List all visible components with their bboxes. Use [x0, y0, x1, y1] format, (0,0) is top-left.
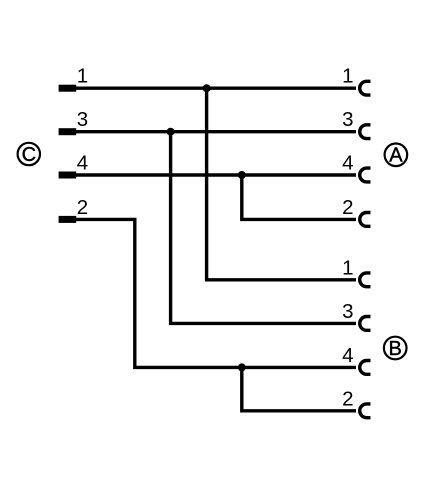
- junction dot J3 on wire C4: [238, 171, 246, 179]
- wire branch node C4 down to A2: [242, 175, 356, 219]
- wire C1 to A1: [76, 86, 356, 89]
- connector C pin 1 (male contact): [59, 85, 77, 92]
- wire branch node B4 down to B2: [242, 367, 356, 410]
- socket B4 (female contact): [360, 361, 371, 375]
- svg-text:4: 4: [342, 152, 353, 175]
- junction dot J4 on wire B4: [238, 363, 246, 371]
- svg-text:C: C: [22, 144, 36, 166]
- svg-text:1: 1: [77, 65, 88, 88]
- socket B2 (female contact): [360, 404, 371, 418]
- connector label C (circled): [18, 143, 40, 166]
- wire C4 to A4: [76, 173, 356, 176]
- svg-text:2: 2: [77, 196, 88, 219]
- wire C3 to A3: [76, 130, 356, 133]
- junction dot J2 on wire C3: [167, 128, 175, 136]
- connector C pin 3 (male contact): [59, 128, 77, 135]
- socket A4 (female contact): [360, 168, 371, 182]
- svg-text:A: A: [389, 145, 403, 167]
- svg-text:3: 3: [342, 300, 353, 323]
- wire branch node C1 down to B1: [207, 88, 356, 280]
- junction dot J1 on wire C1: [203, 84, 211, 92]
- svg-text:1: 1: [342, 65, 353, 88]
- wire C2 to B4: [76, 219, 356, 367]
- svg-text:4: 4: [342, 344, 353, 367]
- svg-text:2: 2: [342, 387, 353, 410]
- socket B3 (female contact): [360, 317, 371, 331]
- svg-text:1: 1: [342, 256, 353, 279]
- svg-text:4: 4: [77, 152, 88, 175]
- svg-text:3: 3: [77, 108, 88, 131]
- connector label A (circled): [385, 144, 408, 167]
- svg-text:3: 3: [342, 108, 353, 131]
- connector C pin 4 (male contact): [59, 172, 77, 179]
- connector C pin 2 (male contact): [59, 216, 77, 223]
- socket B1 (female contact): [360, 273, 371, 287]
- socket A1 (female contact): [360, 81, 371, 95]
- svg-text:2: 2: [342, 196, 353, 219]
- socket A2 (female contact): [360, 213, 371, 227]
- socket A3 (female contact): [360, 125, 371, 139]
- wire branch node C3 down to B3: [171, 132, 356, 324]
- svg-text:B: B: [389, 338, 402, 360]
- connector label B (circled): [384, 337, 407, 360]
